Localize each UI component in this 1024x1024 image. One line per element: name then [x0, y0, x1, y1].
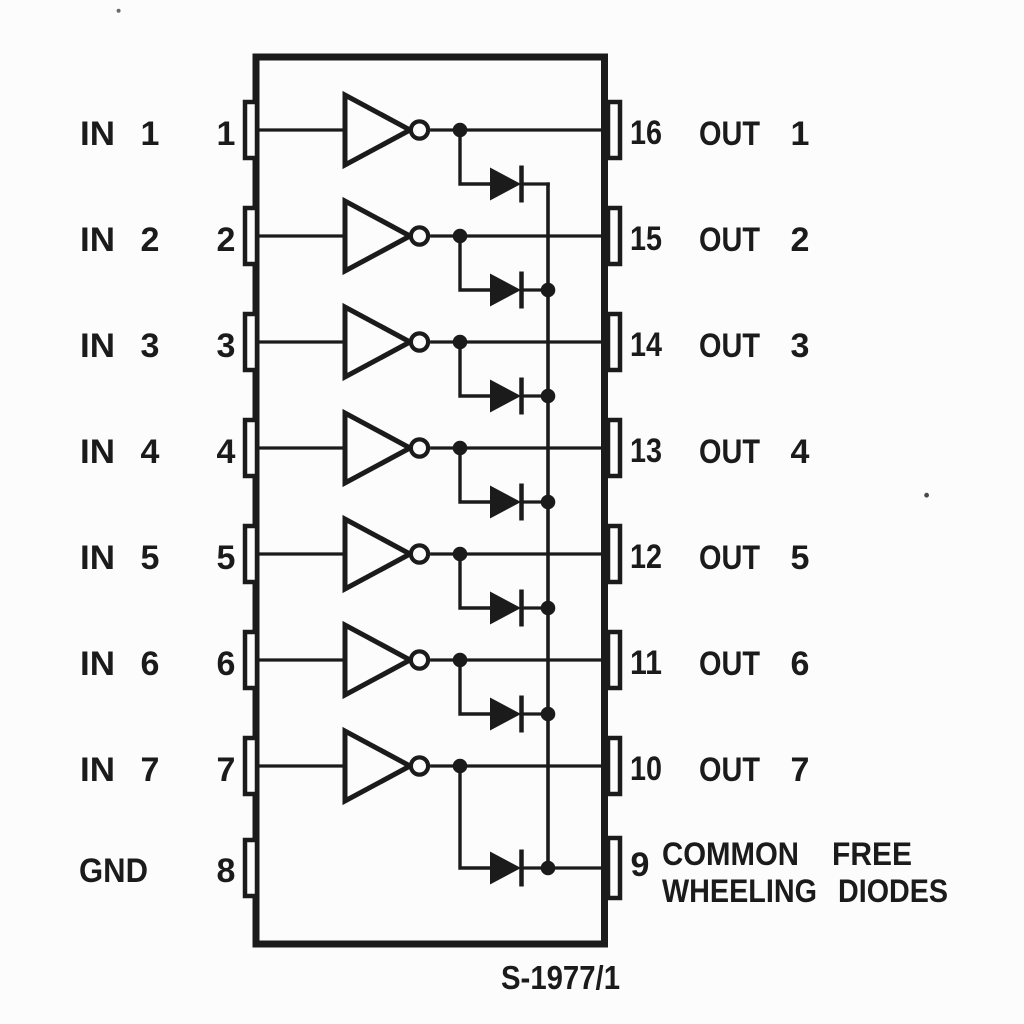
- pin 2 stub (IN 2): [245, 208, 257, 264]
- svg-text:15: 15: [630, 220, 662, 258]
- pin 12 stub (OUT 5): [608, 526, 620, 582]
- svg-text:6: 6: [791, 645, 810, 683]
- wire drop from output 4 junction to diode D4 anode: [460, 448, 491, 502]
- wire diode D4 cathode to common rail: [521, 500, 550, 503]
- wire common rail to pin 9: [548, 866, 602, 869]
- svg-text:7: 7: [217, 751, 236, 789]
- net label OUT 1: [699, 115, 809, 153]
- diode D1 (free-wheeling): [490, 166, 522, 203]
- inverter A5 (triangle with output bubble): [345, 519, 428, 589]
- junction diode D2 on common rail: [541, 283, 556, 298]
- net label IN 2: [80, 221, 159, 259]
- junction on output 2: [453, 229, 468, 244]
- wire output 4: inverter A4 to pin 13: [430, 446, 602, 449]
- junction diode D3 on common rail: [541, 389, 556, 404]
- junction on output 3: [453, 335, 468, 350]
- svg-text:IN: IN: [80, 751, 115, 789]
- net label IN 4: [80, 433, 160, 471]
- pin 4 stub (IN 4): [245, 420, 257, 476]
- svg-text:11: 11: [630, 644, 662, 682]
- wire output 2: inverter A2 to pin 15: [430, 234, 602, 237]
- svg-text:COMMON: COMMON: [662, 836, 799, 872]
- wire input 6: pin 6 to inverter A6: [257, 658, 347, 661]
- net label OUT 2: [699, 221, 809, 259]
- pin 11 stub (OUT 6): [608, 632, 620, 688]
- junction on output 6: [453, 653, 468, 668]
- svg-text:OUT: OUT: [699, 327, 760, 365]
- wire input 4: pin 4 to inverter A4: [257, 446, 347, 449]
- pin 16 stub (OUT 1): [608, 102, 620, 158]
- wire input 1: pin 1 to inverter A1: [257, 128, 347, 131]
- wire diode D2 cathode to common rail: [521, 288, 550, 291]
- pin 7 stub (IN 7): [245, 738, 257, 794]
- inverter A1 (triangle with output bubble): [345, 95, 428, 165]
- wire output 1: inverter A1 to pin 16: [430, 128, 602, 131]
- wire output 7: inverter A7 to pin 10: [430, 764, 602, 767]
- wire diode D5 cathode to common rail: [521, 606, 550, 609]
- inverter A4 (triangle with output bubble): [345, 413, 428, 483]
- wire drop from output 7 junction to diode D7 anode: [460, 766, 491, 868]
- wire drop from output 5 junction to diode D5 anode: [460, 554, 491, 608]
- junction on output 5: [453, 547, 468, 562]
- svg-text:5: 5: [791, 539, 810, 577]
- diode D5 (free-wheeling): [490, 590, 522, 627]
- pin 6 stub (IN 6): [245, 632, 257, 688]
- junction on output 1: [453, 123, 468, 138]
- svg-text:3: 3: [217, 327, 236, 365]
- wire input 2: pin 2 to inverter A2: [257, 234, 347, 237]
- pin 1 stub (IN 1): [245, 102, 257, 158]
- wire input 7: pin 7 to inverter A7: [257, 764, 347, 767]
- svg-text:7: 7: [791, 751, 810, 789]
- pin 3 stub (IN 3): [245, 314, 257, 370]
- net label IN 3: [80, 327, 159, 365]
- diode D4 (free-wheeling): [490, 484, 522, 521]
- wire common free-wheeling diode rail (net K): [546, 182, 550, 868]
- wire drop from output 1 junction to diode D1 anode: [460, 130, 491, 184]
- net label IN 5: [80, 539, 159, 577]
- svg-text:IN: IN: [80, 539, 115, 577]
- svg-text:2: 2: [791, 221, 810, 259]
- svg-text:13: 13: [630, 432, 662, 470]
- svg-text:IN: IN: [80, 327, 115, 365]
- net label IN 6: [80, 645, 159, 683]
- wire diode D3 cathode to common rail: [521, 394, 550, 397]
- speck: [117, 9, 121, 13]
- net label IN 1: [80, 115, 159, 153]
- svg-text:7: 7: [141, 751, 160, 789]
- net label OUT 3: [699, 327, 809, 365]
- svg-text:1: 1: [791, 115, 810, 153]
- net label IN 7: [80, 751, 159, 789]
- svg-text:OUT: OUT: [699, 539, 760, 577]
- svg-text:1: 1: [141, 115, 160, 153]
- pin 9 stub (COMMON): [608, 838, 620, 898]
- svg-text:4: 4: [791, 433, 810, 471]
- svg-text:WHEELING: WHEELING: [662, 873, 817, 909]
- svg-text:2: 2: [141, 221, 160, 259]
- svg-text:IN: IN: [80, 221, 115, 259]
- svg-text:S-1977/1: S-1977/1: [501, 959, 620, 996]
- svg-text:5: 5: [141, 539, 160, 577]
- svg-text:12: 12: [630, 538, 662, 576]
- svg-text:FREE: FREE: [832, 836, 912, 872]
- diode D2 (free-wheeling): [490, 272, 522, 309]
- net label OUT 5: [699, 539, 809, 577]
- wire diode D7 cathode to common rail: [521, 866, 550, 869]
- svg-text:DIODES: DIODES: [838, 873, 948, 909]
- speck: [924, 493, 929, 498]
- svg-text:9: 9: [631, 846, 650, 884]
- wire drop from output 3 junction to diode D3 anode: [460, 342, 491, 396]
- svg-text:OUT: OUT: [699, 751, 760, 789]
- junction diode D4 on common rail: [541, 495, 556, 510]
- net label OUT 6: [699, 645, 809, 683]
- svg-text:4: 4: [217, 433, 236, 471]
- pin 13 stub (OUT 4): [608, 420, 620, 476]
- wire diode D6 cathode to common rail: [521, 712, 550, 715]
- svg-text:4: 4: [141, 433, 160, 471]
- inverter A2 (triangle with output bubble): [345, 201, 428, 271]
- svg-text:6: 6: [217, 645, 236, 683]
- svg-text:2: 2: [217, 221, 236, 259]
- pin 8 stub (GND): [245, 840, 257, 896]
- svg-text:OUT: OUT: [699, 115, 760, 153]
- wire drop from output 2 junction to diode D2 anode: [460, 236, 491, 290]
- wire output 5: inverter A5 to pin 12: [430, 552, 602, 555]
- wire drop from output 6 junction to diode D6 anode: [460, 660, 491, 714]
- pin 14 stub (OUT 3): [608, 314, 620, 370]
- net label OUT 7: [699, 751, 809, 789]
- svg-text:6: 6: [141, 645, 160, 683]
- pin 5 stub (IN 5): [245, 526, 257, 582]
- junction diode D7 on common rail: [541, 861, 556, 876]
- wire input 5: pin 5 to inverter A5: [257, 552, 347, 555]
- inverter A7 (triangle with output bubble): [345, 731, 428, 801]
- inverter A3 (triangle with output bubble): [345, 307, 428, 377]
- svg-text:1: 1: [217, 115, 236, 153]
- svg-text:OUT: OUT: [699, 433, 760, 471]
- svg-text:IN: IN: [80, 115, 115, 153]
- svg-text:3: 3: [141, 327, 160, 365]
- svg-text:14: 14: [630, 326, 662, 364]
- wire output 3: inverter A3 to pin 14: [430, 340, 602, 343]
- svg-text:IN: IN: [80, 645, 115, 683]
- diode D6 (free-wheeling): [490, 696, 522, 733]
- svg-text:IN: IN: [80, 433, 115, 471]
- pin 15 stub (OUT 2): [608, 208, 620, 264]
- diode D7 (free-wheeling): [490, 850, 522, 887]
- wire input 3: pin 3 to inverter A3: [257, 340, 347, 343]
- svg-text:10: 10: [630, 750, 662, 788]
- wire output 6: inverter A6 to pin 11: [430, 658, 602, 661]
- svg-text:16: 16: [630, 114, 662, 152]
- junction on output 4: [453, 441, 468, 456]
- svg-text:8: 8: [217, 852, 236, 890]
- svg-text:OUT: OUT: [699, 221, 760, 259]
- svg-text:5: 5: [217, 539, 236, 577]
- net label OUT 4: [699, 433, 810, 471]
- net label COMMON FREE WHEELING DIODES: [662, 836, 948, 909]
- inverter A6 (triangle with output bubble): [345, 625, 428, 695]
- junction on output 7: [453, 759, 468, 774]
- pin 10 stub (OUT 7): [608, 738, 620, 794]
- svg-text:OUT: OUT: [699, 645, 760, 683]
- junction diode D6 on common rail: [541, 707, 556, 722]
- IC body U1 outline: [256, 57, 605, 944]
- svg-text:GND: GND: [79, 852, 148, 890]
- svg-text:3: 3: [791, 327, 810, 365]
- junction diode D5 on common rail: [541, 601, 556, 616]
- wire diode D1 cathode to common rail: [521, 182, 550, 185]
- diode D3 (free-wheeling): [490, 378, 522, 415]
